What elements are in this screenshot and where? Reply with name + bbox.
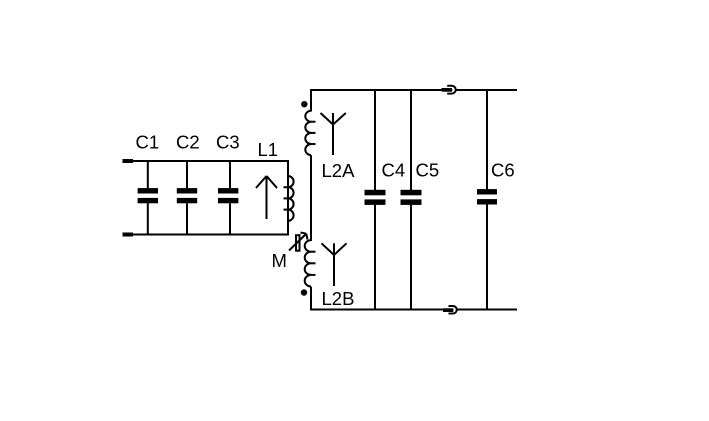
phase dot (top, L2A) bbox=[301, 101, 307, 107]
antenna arrow (L2B core) bbox=[322, 243, 347, 286]
capacitor C5 bbox=[401, 90, 422, 309]
wire: bottom-left rail bbox=[133, 234, 289, 236]
label L2B bbox=[322, 288, 355, 309]
antenna arrow (L2A core) bbox=[321, 113, 346, 155]
L1 tuning arrow bbox=[256, 176, 277, 219]
phase dot (bottom, L2B) bbox=[301, 289, 307, 295]
svg-text:C1: C1 bbox=[136, 131, 160, 152]
capacitor C3 bbox=[218, 161, 238, 235]
label L2A bbox=[322, 160, 356, 181]
wire: secondary top segment bbox=[310, 89, 312, 112]
svg-text:C3: C3 bbox=[216, 131, 240, 152]
svg-text:C2: C2 bbox=[176, 131, 200, 152]
inductor L2B (secondary bottom) bbox=[305, 240, 316, 286]
svg-text:C6: C6 bbox=[491, 160, 515, 181]
wire: top-left rail bbox=[133, 160, 289, 162]
capacitor C2 bbox=[177, 161, 197, 235]
svg-text:C5: C5 bbox=[416, 160, 440, 181]
output jack bottom bbox=[443, 306, 457, 314]
inductor L2A (secondary top) bbox=[305, 111, 315, 156]
wire: secondary bottom segment bbox=[310, 287, 312, 310]
capacitor C6 bbox=[477, 90, 497, 309]
input terminal top bbox=[123, 159, 134, 163]
svg-text:L1: L1 bbox=[258, 139, 279, 160]
capacitor C1 bbox=[138, 161, 158, 235]
label C2 bbox=[176, 131, 200, 152]
wire: bottom output rail (right of jack) bbox=[456, 309, 517, 311]
label C1 bbox=[136, 131, 160, 152]
svg-text:L2A: L2A bbox=[322, 160, 356, 181]
wire: top output rail (left of jack) bbox=[310, 89, 452, 91]
wire: top output rail (right of jack) bbox=[455, 89, 517, 91]
capacitor C4 bbox=[365, 90, 386, 309]
input terminal bottom bbox=[123, 233, 134, 237]
inductor L1 (primary) bbox=[284, 160, 294, 236]
svg-text:C4: C4 bbox=[382, 160, 406, 181]
label C6 bbox=[491, 160, 515, 181]
output jack top bbox=[442, 86, 456, 94]
wire: bottom output rail (left of jack) bbox=[310, 309, 453, 311]
label L1 bbox=[258, 139, 279, 160]
wire: secondary middle segment bbox=[310, 155, 312, 241]
label C5 bbox=[416, 160, 440, 181]
label C4 bbox=[382, 160, 406, 181]
svg-text:M: M bbox=[272, 250, 287, 271]
label M bbox=[272, 250, 287, 271]
mutual coupling arrow M bbox=[289, 233, 308, 251]
svg-text:L2B: L2B bbox=[322, 288, 355, 309]
label C3 bbox=[216, 131, 240, 152]
